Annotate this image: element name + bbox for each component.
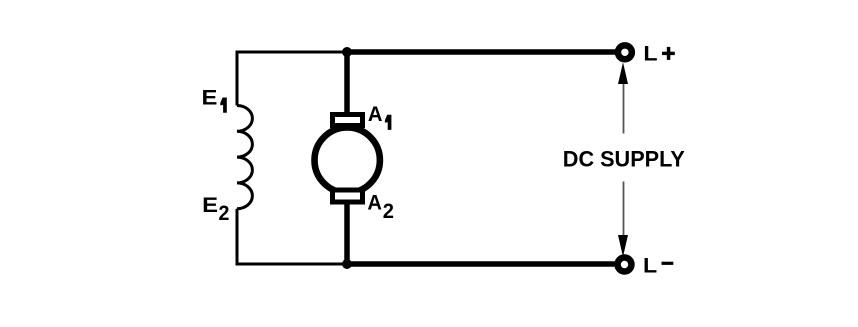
svg-text:E: E — [202, 85, 218, 109]
svg-text:DC SUPPLY: DC SUPPLY — [563, 146, 685, 171]
svg-text:L: L — [643, 42, 657, 66]
svg-text:A: A — [368, 102, 383, 126]
svg-text:2: 2 — [219, 201, 230, 225]
svg-text:E: E — [202, 193, 218, 217]
svg-text:L: L — [643, 254, 657, 278]
svg-text:A: A — [367, 191, 382, 215]
svg-text:2: 2 — [383, 199, 394, 223]
